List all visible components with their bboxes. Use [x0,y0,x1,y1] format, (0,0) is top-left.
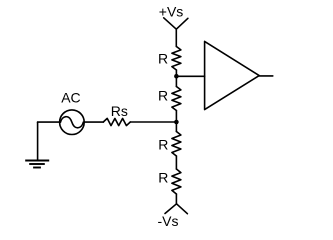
wire node B to R3 [175,122,177,132]
wire node A to R2 [175,76,177,86]
voltage source V1 circle [60,110,85,135]
wire node A to op-amp input [176,75,204,77]
svg-text:AC: AC [61,90,80,106]
svg-text:R: R [158,137,168,153]
wire Rs to node B [130,121,176,123]
svg-text:Rs: Rs [111,103,128,119]
node B junction dot [174,120,179,125]
resistor R3 [172,132,181,157]
resistor R1 [172,47,181,71]
wire R4 to -Vs arrow [175,194,177,204]
svg-text:R: R [158,88,168,104]
node -Vs supply arrow [165,204,187,214]
wire R3 to R4 [175,156,177,169]
svg-text:R: R [158,169,168,185]
svg-text:-Vs: -Vs [158,213,179,229]
wire V1 down-leg to ground [37,122,39,160]
wire V1 to Rs [84,121,103,123]
resistor R2 [172,87,181,111]
svg-text:+Vs: +Vs [159,4,184,20]
node A junction dot [174,74,179,79]
wire R2 to node B [175,111,177,123]
voltage source V1 sine wave [61,117,84,128]
wire op-amp output [259,75,273,77]
resistor R4 [172,169,181,194]
wire R1 to node A [175,70,177,76]
wire ground to V1 [38,121,60,123]
node +Vs supply arrow [164,18,188,47]
ground [25,161,49,168]
op-amp U1 [205,41,260,109]
resistor Rs [103,118,130,125]
svg-text:R: R [158,50,168,66]
